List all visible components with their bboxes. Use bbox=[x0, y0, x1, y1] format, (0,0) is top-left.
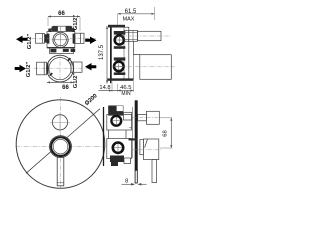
diverter crosshair bbox=[59, 113, 61, 133]
svg-text:68: 68 bbox=[162, 130, 168, 136]
wall back line bbox=[110, 26, 112, 83]
diagonal diameter leader bbox=[26, 109, 100, 174]
body top-right dark corner bbox=[72, 29, 75, 32]
valve body main rectangle (plan) bbox=[47, 32, 75, 48]
vertical centerline bbox=[59, 97, 61, 190]
svg-text:G1/2”: G1/2” bbox=[26, 62, 32, 78]
svg-text:8: 8 bbox=[125, 179, 128, 185]
dim 66 top: dimension line bbox=[48, 15, 80, 31]
bottom protection box bbox=[140, 55, 172, 80]
escutcheon plate lower outline bbox=[135, 170, 137, 183]
cartridge circle inner bbox=[55, 34, 67, 46]
top flange dark bar bbox=[108, 25, 125, 28]
bottom dims 14.8 / 46.5 MIN bbox=[99, 81, 134, 97]
cartridge circle outer bbox=[53, 32, 68, 47]
body outline lower bbox=[107, 139, 132, 159]
big flange circle outer bbox=[47, 55, 74, 82]
knob centerline bbox=[132, 117, 162, 119]
left bottom port G1/2 bbox=[37, 62, 47, 75]
body outline upper bbox=[107, 115, 132, 131]
handle head diagonal edge bbox=[145, 139, 148, 148]
dark wall gap left top bbox=[45, 34, 48, 42]
diverter knob bbox=[146, 111, 159, 124]
lower dark band below circle bbox=[114, 72, 126, 75]
diverter button circle bbox=[52, 115, 67, 130]
body front box to plate bbox=[123, 112, 131, 120]
dim 137.5 vertical bbox=[99, 26, 108, 84]
handle lever bar bbox=[152, 160, 157, 183]
dim 66 bottom bbox=[47, 81, 74, 83]
top pipe centerline bbox=[113, 35, 171, 37]
flow arrow bottom-left (pointing right) bbox=[15, 65, 26, 72]
right bottom port G1/2 bbox=[71, 62, 82, 72]
valve body top block (plan) bbox=[51, 26, 73, 31]
upper dark band below circle bbox=[114, 46, 126, 49]
body bottom dark bar bbox=[110, 156, 124, 163]
body bottom edge thick bbox=[47, 47, 75, 49]
flow arrow top-right (pointing right) bbox=[85, 37, 96, 44]
body foot bbox=[111, 162, 118, 166]
svg-text:14.8: 14.8 bbox=[99, 85, 110, 91]
diverter knob stem bbox=[138, 115, 147, 121]
valve body column bbox=[112, 27, 129, 79]
handle centerline bbox=[133, 149, 161, 151]
body bottom neck bbox=[50, 48, 74, 54]
top elbow dark fitting bbox=[108, 106, 123, 116]
body top-left dark corner bbox=[48, 29, 51, 32]
dim 8 bottom bbox=[122, 179, 147, 186]
lower port hatched circle bbox=[114, 62, 124, 72]
lever bar front bbox=[57, 157, 64, 185]
handle head bbox=[144, 139, 159, 160]
bottom flange dark bar bbox=[108, 78, 134, 80]
body dark right wall bbox=[73, 34, 75, 44]
svg-text:46.5: 46.5 bbox=[120, 85, 131, 91]
wall back line bbox=[103, 107, 105, 166]
top port hatched circle bbox=[111, 116, 121, 126]
handle stem bbox=[140, 140, 144, 155]
handle hub dark ring bbox=[51, 137, 70, 156]
body dark left wall bbox=[47, 34, 49, 44]
centerline top row bbox=[32, 37, 52, 39]
dim 61.5 MAX bbox=[118, 7, 155, 27]
cartridge crosshair vertical bbox=[60, 27, 62, 49]
top outlet pipe: tube bbox=[138, 31, 162, 40]
flow arrow bottom-right (pointing left) bbox=[85, 63, 96, 70]
big circle centerline vertical bbox=[59, 54, 61, 84]
svg-text:G1/2”: G1/2” bbox=[73, 15, 79, 31]
trim plate big circle bbox=[16, 100, 105, 189]
big flange circle inner bbox=[49, 58, 71, 80]
dim 68 bbox=[160, 118, 173, 148]
lower union nut dark bbox=[114, 57, 126, 60]
flow arrow top-left (pointing left) bbox=[16, 36, 27, 43]
upper union nut dark bbox=[114, 31, 126, 35]
body middle neck bbox=[108, 130, 110, 139]
body bottom right step box bbox=[124, 158, 131, 164]
cartridge crosshair horizontal bbox=[52, 39, 70, 41]
sleeve line bbox=[129, 107, 132, 158]
flange notch NE bbox=[68, 58, 71, 61]
svg-text:G1/2”: G1/2” bbox=[73, 73, 79, 89]
step between pipes bbox=[134, 41, 140, 54]
bottom box centerline bbox=[113, 66, 175, 68]
svg-text:66: 66 bbox=[58, 11, 65, 17]
horizontal centerline bbox=[15, 146, 106, 148]
upper port hatched circle bbox=[115, 35, 124, 44]
svg-text:MIN: MIN bbox=[121, 91, 131, 97]
bottom port hatched circle bbox=[113, 143, 123, 153]
stem band across plate bbox=[129, 138, 138, 140]
dark seal blocks at body bottom bbox=[50, 49, 56, 53]
svg-text:66: 66 bbox=[62, 85, 69, 91]
handle hub outer ring bbox=[50, 136, 72, 158]
flange notch SW bbox=[50, 73, 53, 76]
svg-text:MAX: MAX bbox=[123, 17, 135, 23]
right top port G1/2 bbox=[75, 33, 84, 43]
escutcheon plate side bbox=[135, 100, 138, 170]
dark wall gap left bottom bbox=[47, 63, 49, 74]
top outlet pipe: nut bbox=[124, 31, 138, 42]
handle hub inner circle bbox=[53, 139, 68, 154]
svg-text:137.5: 137.5 bbox=[99, 44, 105, 60]
svg-text:G1/2”: G1/2” bbox=[27, 34, 33, 50]
left top port G1/2 bbox=[36, 34, 45, 44]
big circle centerline horizontal bbox=[34, 67, 88, 69]
